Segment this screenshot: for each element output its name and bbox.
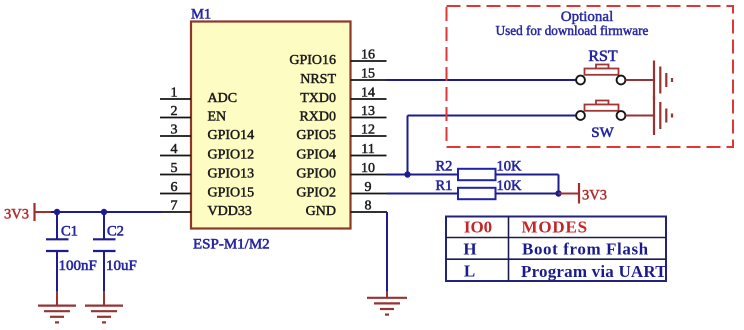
node junction C2	[101, 209, 107, 215]
svg-text:C1: C1	[61, 224, 78, 240]
wire SW vertical drop	[407, 116, 409, 175]
pin 16 GPIO16	[289, 48, 386, 69]
wire SW to ground	[626, 115, 653, 117]
svg-text:13: 13	[361, 104, 375, 119]
svg-text:ESP-M1/M2: ESP-M1/M2	[193, 237, 270, 253]
pin 7 VDD33	[160, 199, 252, 220]
svg-text:3V3: 3V3	[4, 207, 29, 223]
node junction C1	[54, 209, 60, 215]
svg-text:10uF: 10uF	[106, 258, 137, 274]
capacitor C2	[93, 224, 137, 275]
svg-text:M1: M1	[191, 7, 211, 23]
wire GPIO0 to R2	[387, 174, 459, 176]
svg-text:TXD0: TXD0	[300, 91, 336, 106]
pin 3 GPIO14	[160, 123, 254, 144]
pin 2 EN	[160, 104, 226, 125]
pushbutton RST	[576, 48, 625, 84]
svg-text:GPIO13: GPIO13	[208, 167, 255, 182]
wire C1 top lead	[56, 212, 58, 240]
table header MODES	[522, 218, 588, 237]
ground under C2	[85, 306, 123, 323]
ground under C1	[38, 306, 76, 323]
svg-text:4: 4	[171, 142, 178, 157]
svg-text:H: H	[463, 240, 476, 259]
svg-text:Program via UART: Program via UART	[521, 262, 667, 281]
svg-text:RST: RST	[588, 48, 618, 65]
node junction GPIO0	[404, 171, 410, 177]
resistor R1	[436, 178, 523, 199]
svg-text:SW: SW	[591, 125, 614, 141]
svg-text:VDD33: VDD33	[208, 204, 252, 219]
power port 3V3 left	[4, 203, 51, 223]
pin 14 TXD0	[300, 86, 386, 107]
svg-text:7: 7	[171, 199, 178, 214]
wire C2 top lead	[103, 212, 105, 240]
svg-text:9: 9	[365, 180, 372, 195]
svg-text:3V3: 3V3	[582, 188, 607, 204]
table cell Boot from Flash	[522, 240, 649, 259]
svg-text:GPIO12: GPIO12	[208, 148, 255, 163]
svg-text:Used for download firmware: Used for download firmware	[496, 23, 649, 38]
svg-text:6: 6	[171, 180, 178, 195]
svg-text:GPIO5: GPIO5	[296, 128, 336, 143]
wire C1 bottom lead	[56, 251, 58, 305]
svg-text:GPIO15: GPIO15	[208, 186, 255, 201]
svg-text:100nF: 100nF	[59, 258, 97, 274]
wire GPIO2 to R1	[387, 193, 459, 195]
pin 12 GPIO5	[296, 123, 386, 144]
svg-text:IO0: IO0	[464, 218, 492, 237]
IC M1 value label ESP-M1/M2	[193, 237, 270, 253]
svg-text:GPIO0: GPIO0	[296, 167, 336, 182]
svg-text:5: 5	[171, 161, 178, 176]
pin 9 GPIO2	[296, 180, 386, 201]
wire SW to GPIO0 (horizontal)	[408, 115, 577, 117]
table cell Program via UART	[521, 262, 667, 281]
IC M1 body	[191, 22, 351, 229]
wire R1 right	[496, 193, 559, 195]
svg-text:10K: 10K	[497, 178, 523, 194]
svg-text:2: 2	[171, 104, 178, 119]
svg-text:3: 3	[171, 123, 178, 138]
svg-text:MODES: MODES	[522, 218, 588, 237]
wire C2 bottom lead	[103, 251, 105, 305]
power port 3V3 right	[559, 183, 607, 204]
ground under GND pin	[367, 298, 407, 315]
ground right of SW	[654, 96, 672, 135]
svg-text:R1: R1	[436, 178, 453, 194]
svg-text:16: 16	[361, 48, 375, 63]
pin 1 ADC	[160, 86, 237, 107]
svg-text:11: 11	[361, 142, 374, 157]
pin 13 RXD0	[299, 104, 386, 125]
table cell H	[463, 240, 476, 259]
wire GND vertical	[386, 212, 388, 297]
svg-text:1: 1	[171, 86, 178, 101]
pin 11 GPIO4	[296, 142, 386, 163]
wire NRST to RST switch	[387, 79, 577, 81]
table header IO0	[464, 218, 492, 237]
wire RST to ground	[626, 79, 653, 81]
svg-text:C2: C2	[107, 224, 124, 240]
svg-text:GPIO4: GPIO4	[296, 148, 336, 163]
svg-text:L: L	[464, 261, 475, 280]
pushbutton SW	[576, 101, 625, 142]
IC M1 refdes label	[191, 7, 211, 23]
svg-text:15: 15	[361, 67, 375, 82]
svg-text:ADC: ADC	[208, 91, 238, 106]
svg-text:Boot from Flash: Boot from Flash	[522, 240, 649, 259]
capacitor C1	[46, 224, 97, 275]
wire 3V3 to VDD33	[51, 211, 161, 213]
wire R2 right	[496, 175, 559, 194]
resistor R2	[436, 159, 523, 181]
pin 5 GPIO13	[160, 161, 254, 182]
svg-text:EN: EN	[208, 110, 227, 125]
optional dashed box	[447, 6, 734, 147]
svg-text:10K: 10K	[497, 159, 523, 175]
node junction R1/R2	[555, 190, 561, 196]
svg-text:14: 14	[361, 86, 375, 101]
svg-text:10: 10	[361, 161, 375, 176]
svg-text:8: 8	[365, 199, 372, 214]
pin 6 GPIO15	[160, 180, 254, 201]
svg-text:GND: GND	[306, 204, 336, 219]
table cell L	[464, 261, 475, 280]
pin 4 GPIO12	[160, 142, 254, 163]
label Used for download firmware	[496, 23, 649, 38]
modes table frame	[446, 217, 666, 282]
svg-text:NRST: NRST	[300, 72, 336, 87]
pin 8 GND	[306, 199, 387, 220]
svg-text:GPIO16: GPIO16	[289, 53, 336, 68]
svg-text:R2: R2	[436, 159, 453, 175]
svg-text:GPIO14: GPIO14	[208, 128, 255, 143]
ground right of RST	[654, 61, 672, 100]
pin 10 GPIO0	[296, 161, 386, 182]
svg-text:12: 12	[361, 123, 375, 138]
label Optional	[561, 9, 614, 25]
svg-text:RXD0: RXD0	[299, 110, 336, 125]
pin 15 NRST	[300, 67, 386, 88]
svg-text:GPIO2: GPIO2	[296, 186, 336, 201]
